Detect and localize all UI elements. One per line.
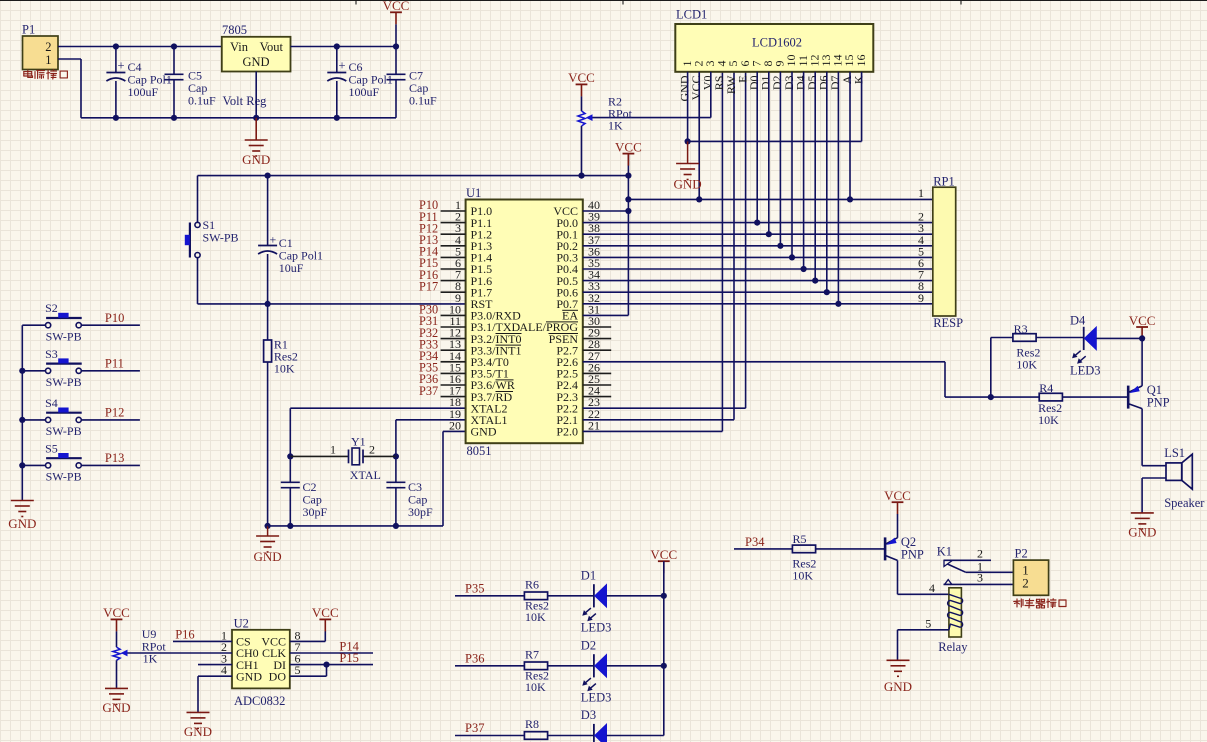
svg-text:30pF: 30pF [408, 505, 433, 519]
svg-text:3: 3 [977, 571, 983, 585]
svg-text:D3: D3 [581, 708, 596, 722]
relay K1 coil [938, 588, 968, 654]
wire R6 to D1 [548, 595, 594, 597]
wire R5 to Q2 base [816, 548, 886, 550]
switch S2 [45, 301, 82, 343]
node RST junction [265, 301, 271, 307]
svg-text:D1: D1 [581, 569, 596, 583]
switch S1 (vertical SW-PB) [185, 218, 239, 258]
mcu U1 8051 [466, 186, 583, 458]
node D2 vcc [661, 663, 667, 669]
svg-text:10uF: 10uF [279, 261, 304, 275]
svg-text:Vout: Vout [260, 40, 284, 54]
LCD pin numbers and names [677, 55, 867, 102]
svg-text:P11: P11 [105, 357, 124, 371]
svg-text:PNP: PNP [901, 548, 924, 562]
svg-text:XTAL: XTAL [350, 468, 381, 482]
wire Vout to VCC [291, 46, 397, 48]
svg-text:GND: GND [884, 679, 912, 694]
resistor R7 [524, 648, 549, 695]
diode D3 LED3 [581, 708, 607, 742]
node R1 gnd rail [265, 523, 271, 529]
svg-text:10K: 10K [274, 362, 295, 376]
svg-text:D4: D4 [1070, 314, 1086, 328]
svg-text:2: 2 [369, 443, 375, 457]
label 刹车器接口 [1014, 599, 1023, 607]
connector P1 [22, 23, 58, 70]
resistor pack RP1 [933, 175, 963, 331]
transistor Q2 PNP [885, 535, 924, 562]
wire vcc led column [663, 561, 665, 735]
wire S3 left [22, 370, 45, 372]
node D4 [801, 266, 807, 272]
capacitor C6 [327, 47, 393, 118]
svg-text:P16: P16 [175, 628, 194, 642]
svg-text:R3: R3 [1014, 322, 1028, 336]
svg-text:1K: 1K [608, 119, 623, 133]
capacitor C2 [281, 456, 328, 526]
svg-text:LED3: LED3 [581, 621, 612, 635]
node C2 gnd [287, 523, 293, 529]
ground 7805 [255, 118, 257, 140]
node DI-DO tie [323, 662, 329, 668]
capacitor C3 [386, 456, 433, 526]
svg-text:R5: R5 [793, 532, 807, 546]
wire P37 row left [455, 735, 524, 737]
svg-text:GND: GND [8, 516, 36, 531]
svg-text:S3: S3 [45, 347, 58, 361]
svg-text:VCC: VCC [312, 605, 339, 620]
node C4 top [113, 43, 119, 49]
wire U2 pin6 P15 [290, 664, 373, 666]
speaker LS1 [1164, 446, 1205, 510]
ground U2 [187, 712, 210, 728]
svg-text:SW-PB: SW-PB [46, 424, 82, 438]
switch S5 [45, 441, 82, 483]
svg-text:0.1uF: 0.1uF [188, 94, 216, 108]
svg-text:GND: GND [242, 55, 269, 69]
svg-text:10K: 10K [1016, 358, 1037, 372]
node C4 bottom [113, 115, 119, 121]
node rail S5 [19, 462, 25, 468]
node R2 bottom rail [578, 173, 584, 179]
wire up to R3 [990, 338, 992, 398]
svg-text:10K: 10K [1038, 413, 1059, 427]
wires P0.0-P0.7 bus to RP1 [583, 223, 933, 304]
svg-text:P15: P15 [339, 651, 358, 665]
svg-text:10K: 10K [792, 569, 813, 583]
power VCC U1 [623, 153, 635, 155]
wire Q1 collector to speaker [1141, 409, 1143, 466]
wire P2.2 to LCD E [583, 407, 746, 409]
potentiometer U9 RPot [113, 627, 166, 688]
wire VCC column x628 [627, 154, 629, 316]
wire switch bank left rail [21, 325, 23, 500]
crystal Y1 [290, 435, 396, 483]
svg-text:SW-PB: SW-PB [203, 231, 239, 245]
wire S5 right / net P13 [81, 464, 139, 466]
wire D3 to vcc col [607, 735, 664, 737]
wire S3 right / net P11 [81, 370, 139, 372]
svg-text:16: 16 [854, 55, 868, 67]
capacitor C4 [106, 47, 171, 118]
wire D4 to VCC [1096, 337, 1142, 339]
wire U2 pin7 P14 [290, 652, 373, 654]
wire P2.6 to right circuit [583, 361, 945, 363]
wire R7 to D2 [548, 665, 594, 667]
svg-text:VCC: VCC [383, 0, 410, 13]
capacitor C5 [165, 47, 217, 118]
svg-text:DO: DO [269, 669, 287, 683]
wire S1 bottom [197, 258, 199, 304]
svg-text:R6: R6 [525, 578, 539, 592]
node C6 bottom [334, 115, 340, 121]
wire U1 pin40 VCC [583, 210, 629, 212]
wire Q2 collector to relay pin4 [897, 560, 899, 594]
wire U2 pin4 gnd [198, 675, 232, 677]
svg-text:1: 1 [45, 53, 51, 67]
svg-text:100uF: 100uF [128, 85, 159, 99]
svg-text:SW-PB: SW-PB [46, 470, 82, 484]
svg-text:VCC: VCC [884, 488, 911, 503]
wire P35 row left [455, 595, 524, 597]
svg-text:VCC: VCC [650, 547, 677, 562]
svg-text:K1: K1 [937, 545, 952, 559]
node C3 gnd [393, 523, 399, 529]
svg-text:1: 1 [918, 186, 924, 200]
wire top rail to VCC column [198, 175, 629, 177]
svg-text:GND: GND [236, 669, 262, 683]
power VCC led column [658, 560, 670, 562]
svg-text:1: 1 [330, 443, 336, 457]
node VCC rail199 [625, 196, 631, 202]
svg-text:Volt Reg: Volt Reg [223, 94, 268, 108]
node Y1 pin2 [393, 453, 399, 459]
svg-text:P13: P13 [105, 451, 124, 465]
U1 left net labels [419, 198, 438, 398]
svg-text:R8: R8 [525, 717, 539, 731]
svg-text:LS1: LS1 [1164, 446, 1185, 460]
wire VCC to Q2 emitter [897, 514, 899, 538]
wire R3 to D4 [1036, 337, 1084, 339]
svg-text:LCD1602: LCD1602 [752, 36, 802, 50]
node C5 top [171, 43, 177, 49]
ground Q2 [887, 660, 910, 676]
svg-text:GND: GND [1128, 525, 1156, 540]
svg-text:P17: P17 [419, 279, 438, 293]
svg-text:VCC: VCC [568, 70, 595, 85]
resistor R1 [264, 338, 298, 376]
diode D2 LED3 [581, 639, 612, 705]
wire U2 pin8 vcc [290, 640, 326, 642]
svg-text:PNP: PNP [1147, 396, 1170, 410]
wire P1 pin2 to Vin rail [58, 46, 222, 48]
wire S2 left [22, 324, 45, 326]
wire R1 to gnd rail [267, 362, 269, 526]
svg-text:LED3: LED3 [581, 691, 612, 705]
node D6 [824, 289, 830, 295]
svg-text:Vin: Vin [230, 40, 249, 54]
svg-text:GND: GND [674, 177, 702, 192]
svg-text:P2.0: P2.0 [556, 425, 578, 439]
svg-text:10K: 10K [525, 610, 546, 624]
ground LCD [687, 141, 689, 163]
resistor R6 [524, 578, 549, 625]
svg-text:8051: 8051 [467, 444, 492, 458]
U1 right stub pins 30 29 28 26 25 24 [583, 327, 611, 397]
svg-text:100uF: 100uF [349, 85, 380, 99]
svg-text:U2: U2 [234, 617, 249, 631]
regulator 7805 U? [222, 23, 291, 108]
wire U2 pin2 to pot wiper [128, 652, 233, 654]
wire D1 to vcc col [607, 595, 664, 597]
wire VCC rail to RP1 [628, 198, 932, 200]
transistor Q1 PNP [1128, 383, 1169, 410]
sheet border top edge [0, 1, 1207, 5]
wire U2 pin1 P16 [173, 640, 232, 642]
svg-text:P10: P10 [105, 311, 124, 325]
svg-text:GND: GND [254, 549, 282, 564]
svg-text:5: 5 [925, 617, 931, 631]
wire relay pin5 to gnd [898, 629, 949, 631]
svg-text:SW-PB: SW-PB [46, 330, 82, 344]
node LCD gnd [685, 138, 691, 144]
node D1 vcc [661, 593, 667, 599]
svg-text:GND: GND [102, 700, 130, 715]
svg-text:D2: D2 [581, 639, 596, 653]
capacitor C7 [387, 47, 438, 118]
svg-text:Speaker: Speaker [1164, 496, 1205, 510]
svg-text:VCC: VCC [103, 605, 130, 620]
svg-text:RP1: RP1 [933, 175, 955, 189]
LCD pin stub wires [688, 72, 862, 304]
svg-text:P37: P37 [465, 721, 484, 735]
svg-text:VCC: VCC [615, 139, 642, 154]
svg-text:K: K [851, 75, 865, 84]
U1 left pin stubs P10-P17 [441, 211, 466, 397]
wire P2.0 to LCD RS [583, 430, 723, 432]
node VCC rail175 [625, 173, 631, 179]
switch S4 [45, 396, 82, 438]
node P2.6 split [988, 394, 994, 400]
svg-text:P35: P35 [465, 582, 484, 596]
node C1 top [265, 173, 271, 179]
wire LCD gnd-K link [688, 140, 862, 142]
node D2 [777, 243, 783, 249]
wire S4 right / net P12 [81, 419, 139, 421]
svg-text:LED3: LED3 [1070, 364, 1101, 378]
svg-text:SW-PB: SW-PB [46, 375, 82, 389]
svg-text:0.1uF: 0.1uF [409, 94, 437, 108]
switch S3 [45, 347, 82, 389]
svg-text:P12: P12 [105, 406, 124, 420]
wire XTAL1 pin19 [396, 419, 466, 421]
ground speaker [1131, 513, 1154, 529]
adc U2 ADC0832 [221, 617, 301, 709]
svg-text:30pF: 30pF [303, 505, 328, 519]
svg-text:S2: S2 [45, 301, 58, 315]
node D0 [754, 220, 760, 226]
node D3 [789, 254, 795, 260]
svg-text:GND: GND [242, 152, 270, 167]
resistor R4 [1038, 381, 1062, 427]
wire S5 left [22, 464, 45, 466]
node 7805 gnd [253, 115, 259, 121]
svg-text:P34: P34 [745, 535, 765, 549]
wire U2 pin5 to pin6 [290, 675, 327, 677]
ground U9 [105, 688, 128, 704]
wire P1 pin1 down to gnd rail [58, 58, 81, 60]
node VCC pin40 [625, 208, 631, 214]
wire P34 row [734, 548, 792, 550]
ground switch bank [11, 501, 34, 517]
svg-text:S4: S4 [45, 396, 58, 410]
wire XTAL2 pin18 [290, 407, 465, 409]
svg-text:P36: P36 [465, 652, 484, 666]
node C7/VCC top [393, 43, 399, 49]
wire P36 row left [455, 665, 524, 667]
wire VCC to Q1 emitter [1141, 338, 1143, 386]
connector P2 [1013, 547, 1048, 596]
label 电源接口 [24, 70, 33, 77]
svg-text:R7: R7 [525, 648, 539, 662]
svg-text:P37: P37 [419, 384, 438, 398]
wire S1 top [197, 176, 199, 223]
wire R4 row [991, 396, 1039, 398]
svg-text:R4: R4 [1039, 381, 1053, 395]
wire RST [268, 303, 466, 305]
svg-text:2: 2 [1022, 575, 1029, 590]
wire C1 to R1 [267, 304, 269, 340]
svg-text:RESP: RESP [933, 316, 963, 330]
svg-text:GND: GND [184, 724, 212, 739]
svg-text:U1: U1 [466, 186, 481, 200]
power VCC U9 [111, 618, 123, 620]
U1 pin names/numbers [449, 198, 600, 439]
svg-text:Relay: Relay [938, 640, 968, 654]
ground crystal rail [267, 526, 269, 536]
node rail S4 [19, 417, 25, 423]
svg-text:GND: GND [471, 425, 497, 439]
lcd module LCD1 [675, 8, 873, 72]
svg-text:LCD1: LCD1 [676, 8, 707, 22]
wire S4 left [22, 419, 45, 421]
wire R4 to Q1 base [1062, 396, 1128, 398]
node D7 [835, 301, 841, 307]
svg-text:+: + [339, 59, 346, 73]
node D5 [812, 278, 818, 284]
wire U2 pin3 stub [198, 664, 232, 666]
wire speaker to gnd [1142, 477, 1166, 479]
svg-text:S5: S5 [45, 441, 58, 455]
node VCC D4 [1139, 335, 1145, 341]
node LCD backlight A [847, 196, 853, 202]
svg-text:ADC0832: ADC0832 [234, 694, 285, 708]
node D1 [766, 231, 772, 237]
RP1 pin numbers [918, 186, 924, 305]
diode D4 LED3 [1070, 314, 1101, 378]
wire D2 to vcc col [607, 665, 664, 667]
potentiometer R2 RPot [568, 70, 711, 175]
wire P2.1 to LCD RW [583, 419, 734, 421]
power VCC U2 [319, 618, 331, 620]
node rail S3 [19, 368, 25, 374]
node LCD vcc [696, 196, 702, 202]
svg-text:P1: P1 [22, 23, 35, 37]
gnd rail under caps [116, 117, 396, 119]
resistor R3 [1013, 322, 1041, 371]
resistor R5 [792, 532, 816, 583]
power VCC Q2 [892, 501, 904, 503]
node Y1 pin1 [287, 453, 293, 459]
node C5 bottom [171, 115, 177, 121]
svg-text:20: 20 [449, 418, 461, 432]
svg-text:7805: 7805 [222, 23, 247, 37]
capacitor C1 [258, 176, 323, 304]
svg-text:9: 9 [918, 291, 924, 305]
svg-text:4: 4 [929, 581, 935, 595]
relay K1 contact [937, 545, 1014, 585]
svg-text:+: + [118, 59, 125, 73]
svg-text:P2: P2 [1015, 547, 1028, 561]
power VCC right [1136, 326, 1148, 328]
wire 7805 gnd pin [255, 72, 257, 118]
node C6 top [334, 43, 340, 49]
wire R8 to D3 [548, 735, 594, 737]
power VCC top [390, 11, 402, 13]
wire GND pin20 [443, 430, 466, 432]
resistor R8 [524, 717, 547, 739]
wire S2 right / net P10 [81, 324, 139, 326]
wire U1 EA pin31 [583, 314, 629, 316]
svg-text:Y1: Y1 [351, 435, 366, 449]
svg-text:10K: 10K [525, 680, 546, 694]
svg-text:VCC: VCC [1129, 313, 1156, 328]
svg-text:+: + [270, 233, 277, 247]
diode D1 LED3 [581, 569, 612, 635]
